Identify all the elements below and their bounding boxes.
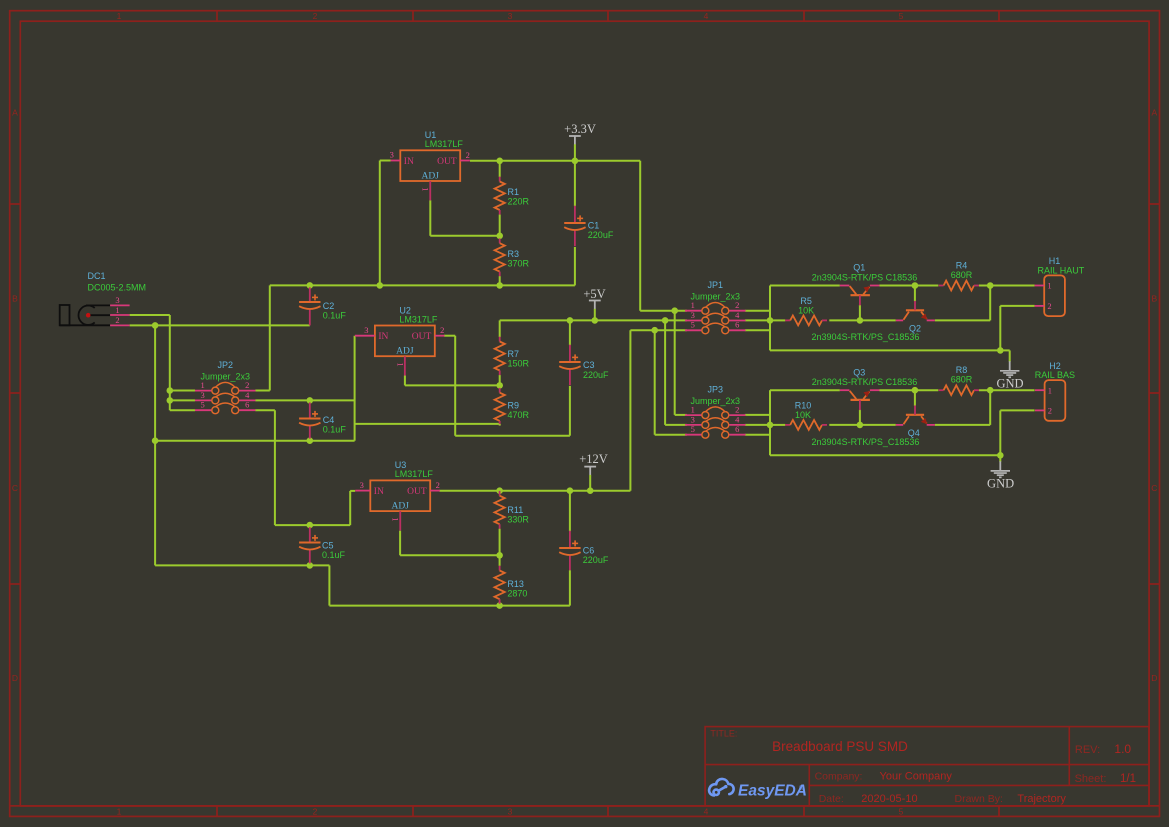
svg-text:1/1: 1/1 bbox=[1120, 773, 1136, 785]
svg-text:330R: 330R bbox=[507, 515, 529, 525]
wire C2 leads bbox=[309, 287, 311, 325]
resistor R7 bbox=[495, 337, 530, 386]
svg-text:R4: R4 bbox=[956, 261, 968, 271]
svg-text:R9: R9 bbox=[508, 400, 520, 410]
svg-text:0.1uF: 0.1uF bbox=[323, 311, 347, 321]
svg-text:1: 1 bbox=[1048, 385, 1052, 395]
svg-text:IN: IN bbox=[378, 332, 388, 342]
svg-text:4: 4 bbox=[704, 806, 709, 816]
svg-text:4: 4 bbox=[735, 414, 740, 424]
svg-text:150R: 150R bbox=[508, 359, 530, 369]
svg-text:R8: R8 bbox=[956, 365, 968, 375]
svg-text:B: B bbox=[12, 294, 18, 304]
svg-text:3: 3 bbox=[508, 806, 513, 816]
wire Q1 base bbox=[859, 305, 861, 320]
svg-text:680R: 680R bbox=[951, 270, 973, 280]
svg-text:R7: R7 bbox=[508, 349, 520, 359]
junction +5V rail / JP3 feed bbox=[662, 317, 669, 324]
svg-text:3: 3 bbox=[691, 414, 695, 424]
svg-text:TITLE:: TITLE: bbox=[710, 729, 737, 739]
svg-text:C: C bbox=[1151, 483, 1157, 493]
svg-text:3: 3 bbox=[508, 11, 513, 21]
wire C1 leads bbox=[574, 161, 576, 246]
svg-text:Trajectory: Trajectory bbox=[1017, 793, 1066, 805]
svg-text:470R: 470R bbox=[508, 410, 530, 420]
svg-text:D: D bbox=[12, 673, 18, 683]
wire Q2 emitter riser bbox=[935, 286, 990, 321]
svg-text:Drawn By:: Drawn By: bbox=[955, 793, 1003, 805]
wire Q1 emitter to R4 bbox=[879, 285, 938, 287]
transistor Q2 2n3904 bbox=[812, 301, 935, 342]
power flag +3.3V bbox=[564, 122, 596, 161]
resistor R3 bbox=[495, 236, 530, 286]
jumper JP1 Jumper_2x3 bbox=[685, 280, 746, 334]
svg-text:Jumper_2x3: Jumper_2x3 bbox=[691, 396, 741, 406]
junction +12V rail / power stem bbox=[587, 487, 594, 494]
capacitor C3 bbox=[559, 354, 609, 380]
wire JP3 outputs common bus bbox=[745, 390, 770, 455]
svg-text:5: 5 bbox=[899, 11, 904, 21]
wire U1 IN riser bbox=[380, 161, 391, 286]
svg-text:3: 3 bbox=[201, 390, 205, 400]
wire bottom rail to R13/C6 bottom bbox=[155, 565, 570, 605]
svg-text:LM317LF: LM317LF bbox=[395, 469, 434, 479]
junction JP1 pin1 / JP3 feed bbox=[671, 307, 678, 314]
resistor R13 bbox=[495, 555, 528, 605]
svg-text:6: 6 bbox=[735, 424, 739, 434]
svg-text:R3: R3 bbox=[508, 249, 520, 259]
svg-text:1: 1 bbox=[421, 187, 431, 191]
svg-text:Breadboard PSU SMD: Breadboard PSU SMD bbox=[772, 739, 908, 754]
svg-text:5: 5 bbox=[691, 424, 695, 434]
svg-text:5: 5 bbox=[691, 320, 695, 330]
regulator U1 LM317LF bbox=[390, 130, 470, 200]
wire C3 leads bbox=[569, 320, 571, 385]
junction DC1-pin1 riser / JP2 pin3 bbox=[167, 397, 174, 404]
svg-text:2: 2 bbox=[436, 480, 440, 490]
svg-text:IN: IN bbox=[374, 487, 384, 497]
svg-text:1: 1 bbox=[691, 405, 695, 415]
wire C4 leads bbox=[309, 402, 311, 438]
power flag +12V bbox=[579, 452, 608, 491]
capacitor C5 bbox=[299, 535, 345, 560]
wire +3.3V rail U1 OUT bbox=[470, 160, 640, 162]
svg-text:+3.3V: +3.3V bbox=[564, 122, 596, 136]
junction bottom rail / R13 bottom bbox=[496, 602, 503, 609]
wire R4 to H1 pin1 bbox=[979, 285, 1035, 287]
svg-text:A: A bbox=[12, 108, 18, 118]
svg-text:Your Company: Your Company bbox=[880, 771, 953, 783]
svg-text:3: 3 bbox=[115, 295, 119, 305]
junction DC1 pin2 / drop bbox=[152, 322, 159, 329]
svg-text:JP1: JP1 bbox=[708, 280, 724, 290]
wire Q3 emitter to R8 bbox=[879, 389, 938, 391]
connector H1 bbox=[1035, 256, 1085, 316]
svg-text:5: 5 bbox=[899, 806, 904, 816]
svg-text:R1: R1 bbox=[508, 187, 520, 197]
svg-text:2n3904S-RTK/PS_C18536: 2n3904S-RTK/PS_C18536 bbox=[812, 437, 920, 447]
svg-text:2020-05-10: 2020-05-10 bbox=[861, 793, 917, 805]
wire bus bottom to H2 pin2 GND bbox=[770, 410, 1035, 462]
svg-text:ADJ: ADJ bbox=[422, 171, 440, 181]
junction H1 pin1 / Q2 emitter riser bbox=[987, 282, 994, 289]
resistor R5 bbox=[785, 296, 827, 326]
svg-text:1: 1 bbox=[115, 305, 119, 315]
junction R7/R9 node bbox=[496, 382, 503, 389]
svg-text:DC005-2.5MM: DC005-2.5MM bbox=[88, 283, 147, 293]
svg-text:1: 1 bbox=[201, 380, 205, 390]
wire mid rail y441 to U2 IN riser bbox=[155, 336, 355, 441]
svg-text:1: 1 bbox=[691, 300, 695, 310]
wire U2 OUT to C3 bottom bbox=[444, 336, 570, 436]
ground GND bbox=[996, 361, 1023, 390]
svg-text:2870: 2870 bbox=[507, 589, 527, 599]
wire JP1-JP3 pin3 link bbox=[665, 320, 687, 425]
wire R9 bottom to U2 riser bbox=[355, 423, 500, 425]
svg-text:+5V: +5V bbox=[583, 287, 605, 301]
junction Q3 base node bbox=[857, 422, 864, 429]
wire bus top to Q1 collector bbox=[770, 285, 840, 287]
svg-text:Company:: Company: bbox=[815, 771, 863, 783]
wire Q2 base bbox=[914, 286, 916, 302]
junction Q1 base node bbox=[857, 317, 864, 324]
power flag +5V bbox=[583, 287, 605, 321]
capacitor C6 bbox=[559, 540, 609, 565]
svg-text:GND: GND bbox=[987, 476, 1014, 490]
svg-text:2: 2 bbox=[313, 806, 318, 816]
ground GND bbox=[987, 461, 1014, 490]
svg-text:3: 3 bbox=[364, 325, 368, 335]
transistor Q3 2n3904 bbox=[812, 367, 917, 410]
svg-text:220uF: 220uF bbox=[588, 230, 614, 240]
connector DC1 DC005-2.5MM barrel jack bbox=[60, 271, 146, 325]
svg-text:REV:: REV: bbox=[1075, 744, 1100, 756]
svg-text:R10: R10 bbox=[795, 401, 812, 411]
junction +3.3V rail / R1 bbox=[496, 158, 503, 165]
svg-text:IN: IN bbox=[404, 157, 414, 167]
capacitor C1 bbox=[564, 215, 614, 240]
svg-text:2: 2 bbox=[1048, 406, 1052, 416]
svg-text:220uF: 220uF bbox=[583, 370, 609, 380]
junction R11/R13 node bbox=[496, 552, 503, 559]
svg-text:220uF: 220uF bbox=[583, 555, 609, 565]
wire bus bottom to H1 pin2 GND bbox=[770, 306, 1035, 362]
svg-text:B: B bbox=[1151, 294, 1157, 304]
svg-text:C6: C6 bbox=[583, 545, 595, 555]
svg-text:ADJ: ADJ bbox=[396, 347, 414, 357]
wire DC1 pin1 to JP2 pins 1/3/5 bbox=[130, 315, 195, 410]
wire bus top to Q3 collector bbox=[770, 389, 840, 391]
wire JP2 pin2 riser to input bus y285 bbox=[255, 247, 575, 391]
regulator U2 LM317LF bbox=[355, 305, 445, 375]
wire U2 ADJ loop bbox=[405, 376, 500, 386]
junction JP3 pin4 / bus bbox=[767, 422, 774, 429]
svg-text:C: C bbox=[12, 483, 18, 493]
wire DC1 pin2 drop to bottom rail bbox=[154, 325, 156, 565]
junction DC1-pin1 riser / JP2 pin1 bbox=[167, 387, 174, 394]
svg-text:®: ® bbox=[799, 785, 804, 792]
transistor Q4 2n3904 bbox=[812, 405, 935, 447]
wire +12V rail U3 OUT bbox=[439, 330, 687, 491]
svg-text:6: 6 bbox=[245, 400, 249, 410]
svg-text:2: 2 bbox=[245, 380, 249, 390]
junction +5V rail / C3 top bbox=[567, 317, 574, 324]
svg-text:RAIL HAUT: RAIL HAUT bbox=[1038, 265, 1085, 275]
svg-text:2: 2 bbox=[466, 150, 470, 160]
junction H2 pin1 / Q4 emitter riser bbox=[987, 387, 994, 394]
svg-text:C1: C1 bbox=[588, 220, 600, 230]
svg-text:Jumper_2x3: Jumper_2x3 bbox=[691, 292, 741, 302]
svg-text:Sheet:: Sheet: bbox=[1075, 773, 1107, 785]
svg-text:Q1: Q1 bbox=[853, 263, 865, 273]
svg-text:2: 2 bbox=[440, 325, 444, 335]
junction R1/R3 node bbox=[496, 233, 503, 240]
wire JP1-JP3 pin1 link bbox=[675, 311, 687, 415]
svg-text:1: 1 bbox=[1047, 281, 1051, 291]
junction Q2 base / top wire bbox=[912, 282, 919, 289]
svg-text:JP3: JP3 bbox=[708, 385, 724, 395]
wire Q4 base bbox=[914, 390, 916, 406]
wire R5 node to Q2 collector bbox=[770, 319, 896, 321]
svg-text:ADJ: ADJ bbox=[392, 502, 410, 512]
svg-text:R13: R13 bbox=[507, 579, 524, 589]
svg-text:2n3904S-RTK/PS_C18536: 2n3904S-RTK/PS_C18536 bbox=[812, 332, 920, 342]
svg-text:LM317LF: LM317LF bbox=[425, 139, 464, 149]
capacitor C4 bbox=[299, 411, 346, 435]
junction +12V rail / C6 bbox=[567, 487, 574, 494]
svg-text:2: 2 bbox=[735, 405, 739, 415]
junction H2 pin2 / GND bbox=[997, 452, 1004, 459]
wire +5V rail to JP1 pin3 bbox=[500, 320, 687, 337]
wire JP1 outputs common bus bbox=[745, 286, 770, 351]
resistor R11 bbox=[495, 491, 530, 556]
svg-text:4: 4 bbox=[735, 310, 740, 320]
wire C6 leads bbox=[569, 491, 571, 571]
svg-text:370R: 370R bbox=[508, 259, 530, 269]
svg-text:OUT: OUT bbox=[437, 157, 457, 167]
jumper JP2 Jumper_2x3 bbox=[195, 360, 256, 414]
capacitor C2 bbox=[299, 294, 346, 320]
wire U1 ADJ loop bbox=[430, 200, 499, 236]
resistor R10 bbox=[785, 401, 827, 430]
svg-text:GND: GND bbox=[996, 376, 1023, 390]
wire C5 leads bbox=[309, 527, 311, 563]
resistor R8 bbox=[939, 365, 979, 395]
svg-text:10K: 10K bbox=[795, 410, 811, 420]
svg-text:2: 2 bbox=[1047, 301, 1051, 311]
svg-text:DC1: DC1 bbox=[88, 271, 106, 281]
svg-text:4: 4 bbox=[704, 11, 709, 21]
wire Q4 emitter riser bbox=[935, 390, 990, 425]
svg-text:5: 5 bbox=[201, 400, 205, 410]
regulator U3 LM317LF bbox=[355, 460, 440, 530]
wire U3 ADJ loop bbox=[400, 531, 500, 556]
svg-text:10K: 10K bbox=[798, 305, 814, 315]
svg-text:Q3: Q3 bbox=[853, 367, 865, 377]
wire R10 node to Q4 collector bbox=[770, 424, 896, 426]
svg-text:3: 3 bbox=[360, 480, 364, 490]
svg-text:Date:: Date: bbox=[819, 793, 844, 805]
svg-text:2: 2 bbox=[313, 11, 318, 21]
svg-text:EasyEDA: EasyEDA bbox=[738, 782, 807, 799]
junction JP1 pin4 / bus bbox=[767, 317, 774, 324]
svg-text:2: 2 bbox=[735, 300, 739, 310]
junction input bus / R3 bottom bbox=[496, 282, 503, 289]
transistor Q1 2n3904 bbox=[812, 263, 917, 306]
svg-text:0.1uF: 0.1uF bbox=[323, 424, 347, 434]
wire R8 to H2 pin1 bbox=[979, 389, 1035, 391]
svg-text:1: 1 bbox=[395, 362, 405, 366]
svg-text:OUT: OUT bbox=[407, 487, 427, 497]
svg-text:6: 6 bbox=[735, 320, 739, 330]
junction C5 top bbox=[307, 522, 314, 529]
junction +12V rail / R11 bbox=[496, 487, 503, 494]
wire +3.3V riser to JP1 pin1 bbox=[640, 161, 687, 311]
resistor R4 bbox=[939, 261, 979, 291]
junction +3.3V rail / C1 bbox=[572, 158, 579, 165]
svg-text:D: D bbox=[1151, 673, 1157, 683]
svg-text:1: 1 bbox=[117, 11, 122, 21]
junction Q4 base / top wire bbox=[912, 387, 919, 394]
junction H1 pin2 / GND bbox=[997, 347, 1004, 354]
svg-text:1: 1 bbox=[117, 806, 122, 816]
svg-text:2n3904S-RTK/PS C18536: 2n3904S-RTK/PS C18536 bbox=[812, 377, 917, 387]
svg-text:1.0: 1.0 bbox=[1114, 742, 1131, 756]
svg-text:R11: R11 bbox=[507, 505, 523, 515]
junction +5V rail / power stem bbox=[592, 317, 599, 324]
svg-text:R5: R5 bbox=[800, 296, 812, 306]
junction bottom rail / C5 bottom bbox=[307, 562, 314, 569]
svg-text:1: 1 bbox=[391, 517, 401, 521]
svg-text:C3: C3 bbox=[583, 360, 595, 370]
jumper JP3 Jumper_2x3 bbox=[685, 385, 746, 439]
svg-text:+12V: +12V bbox=[579, 452, 608, 466]
resistor R9 bbox=[495, 385, 530, 425]
svg-text:LM317LF: LM317LF bbox=[399, 314, 438, 324]
svg-text:2: 2 bbox=[115, 315, 119, 325]
svg-text:2n3904S-RTK/PS C18536: 2n3904S-RTK/PS C18536 bbox=[812, 273, 917, 283]
svg-text:RAIL BAS: RAIL BAS bbox=[1035, 370, 1075, 380]
wire JP2 pin6 to C5 top and U3 IN bbox=[255, 410, 355, 525]
resistor R1 bbox=[495, 161, 530, 236]
wire JP2 pin4 to C4 top and U2 riser bbox=[255, 399, 354, 401]
wire JP1-JP3 pin5 link bbox=[655, 330, 687, 435]
svg-text:OUT: OUT bbox=[412, 332, 432, 342]
wire Q3 base bbox=[859, 410, 861, 425]
svg-text:A: A bbox=[1151, 108, 1157, 118]
svg-text:0.1uF: 0.1uF bbox=[322, 550, 346, 560]
junction JP1 pin5 / JP3 feed bbox=[651, 327, 658, 334]
junction JP2 pin4 wire / C4 top bbox=[307, 397, 314, 404]
connector H2 bbox=[1035, 361, 1075, 421]
svg-text:JP2: JP2 bbox=[217, 360, 233, 370]
junction mid rail / drop bbox=[152, 437, 159, 444]
svg-text:3: 3 bbox=[390, 150, 394, 160]
svg-text:C2: C2 bbox=[323, 301, 335, 311]
svg-text:3: 3 bbox=[691, 310, 695, 320]
svg-text:Jumper_2x3: Jumper_2x3 bbox=[200, 371, 250, 381]
junction input bus / U1 IN riser bbox=[377, 282, 384, 289]
svg-text:220R: 220R bbox=[508, 196, 530, 206]
svg-text:680R: 680R bbox=[951, 375, 973, 385]
junction input bus / C2 top bbox=[307, 282, 314, 289]
wire DC1 pin2 to C2 bottom bbox=[130, 324, 310, 326]
junction mid rail / C4 bottom bbox=[307, 437, 314, 444]
